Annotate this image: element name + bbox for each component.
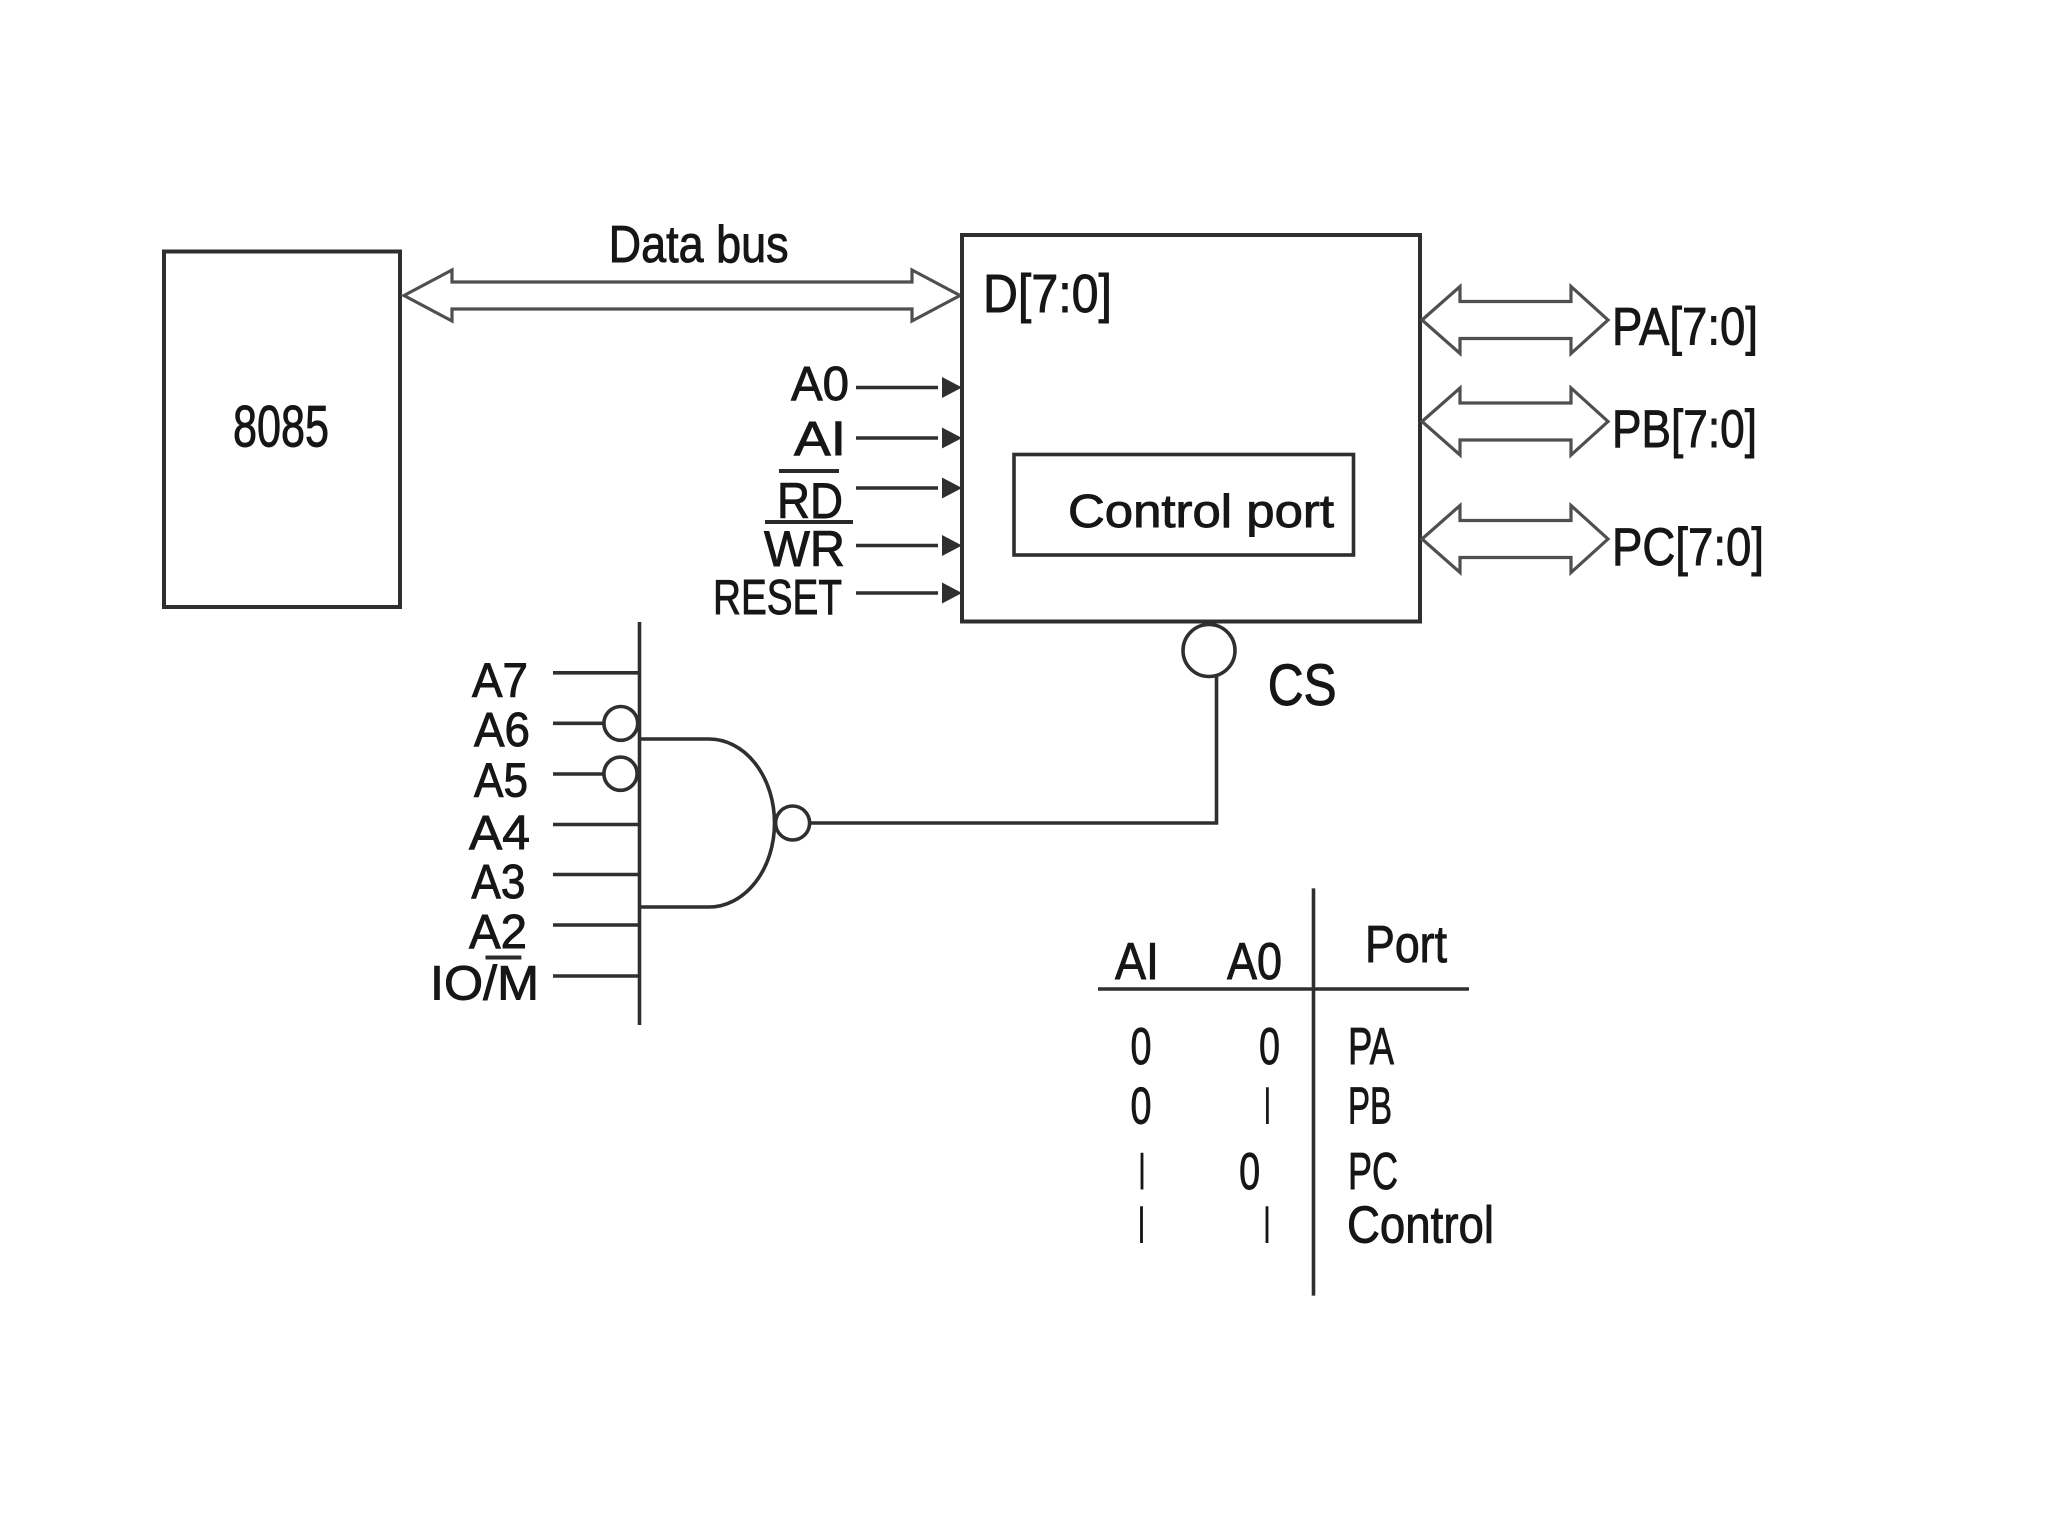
label CS <box>1268 653 1337 718</box>
label A3 <box>471 856 525 909</box>
label A2 <box>469 906 527 959</box>
svg-text:0: 0 <box>1131 1077 1152 1135</box>
port bus arrow PB <box>1422 388 1608 455</box>
svg-text:0: 0 <box>1259 1018 1280 1076</box>
label PB[7:0] <box>1612 400 1757 459</box>
svg-text:0: 0 <box>1239 1143 1260 1201</box>
svg-text:PC[7:0]: PC[7:0] <box>1612 518 1764 577</box>
svg-text:I: I <box>1264 1077 1271 1135</box>
label A0 <box>791 358 849 411</box>
label A7 <box>472 655 528 708</box>
svg-text:I: I <box>1138 1197 1145 1255</box>
label A1 <box>794 413 846 466</box>
svg-text:A6: A6 <box>474 704 530 757</box>
svg-text:Data bus: Data bus <box>609 216 789 274</box>
svg-text:IO/M: IO/M <box>430 958 539 1011</box>
svg-text:PA[7:0]: PA[7:0] <box>1612 298 1758 357</box>
truth table row PB <box>1131 1077 1393 1135</box>
svg-text:A0: A0 <box>1227 933 1282 991</box>
svg-text:RESET: RESET <box>713 571 842 625</box>
label RESET <box>713 571 842 625</box>
label PA[7:0] <box>1612 298 1758 357</box>
label Control port <box>1068 485 1334 537</box>
chip-select bubble on PPI <box>1183 625 1235 677</box>
wire arrow RD into PPI <box>856 478 962 499</box>
control port box <box>1014 455 1354 556</box>
wire A3 input <box>553 873 640 877</box>
inversion bubble A6 <box>604 707 638 741</box>
wire A4 input <box>553 823 640 827</box>
inversion bubble A5 <box>604 757 637 790</box>
svg-text:A4: A4 <box>469 807 530 860</box>
label IO/M with overline on M <box>430 958 539 1011</box>
wire arrow A0 into PPI <box>856 377 962 398</box>
label Data bus <box>609 216 789 274</box>
truth table vertical rule <box>1312 888 1316 1295</box>
svg-text:Port: Port <box>1365 916 1447 974</box>
data bus double arrow wire D[7:0] <box>404 270 960 321</box>
svg-text:PA: PA <box>1348 1018 1394 1076</box>
truth table header A0 <box>1227 933 1282 991</box>
truth table row PC <box>1139 1143 1399 1201</box>
svg-text:Control: Control <box>1347 1197 1494 1255</box>
NAND gate U3 body <box>640 739 775 907</box>
svg-text:A5: A5 <box>474 754 528 807</box>
svg-text:PB[7:0]: PB[7:0] <box>1612 400 1757 459</box>
svg-text:CS: CS <box>1268 653 1337 718</box>
svg-text:A7: A7 <box>472 655 528 708</box>
wire arrow WR into PPI <box>856 535 962 556</box>
label A4 <box>469 807 530 860</box>
port bus arrow PA <box>1422 287 1608 354</box>
svg-text:AI: AI <box>1115 933 1159 991</box>
wire IO/M input <box>553 974 640 978</box>
wire A6 input <box>553 721 604 725</box>
CPU block 8085 U1 <box>164 252 400 608</box>
label A5 <box>474 754 528 807</box>
NAND gate U3 input bus bar <box>638 622 642 1025</box>
port bus arrow PC <box>1422 506 1608 573</box>
label 8085 <box>233 395 329 460</box>
svg-text:A0: A0 <box>791 358 849 411</box>
truth table row PA <box>1131 1018 1395 1076</box>
pin label D[7:0] <box>983 264 1112 324</box>
wire arrow RESET into PPI <box>856 583 962 604</box>
truth table row Control <box>1138 1197 1494 1255</box>
truth table header A1 <box>1115 933 1159 991</box>
PPI block U2 (8255) <box>962 235 1420 622</box>
svg-text:WR: WR <box>764 521 845 577</box>
svg-text:PB: PB <box>1348 1077 1392 1135</box>
wire A2 input <box>553 923 640 927</box>
svg-text:0: 0 <box>1131 1018 1152 1076</box>
svg-text:A3: A3 <box>471 856 525 909</box>
svg-text:A2: A2 <box>469 906 527 959</box>
NAND output inversion bubble <box>776 806 810 840</box>
truth table horizontal rule <box>1098 987 1469 991</box>
svg-text:AI: AI <box>794 413 846 466</box>
svg-text:I: I <box>1139 1143 1146 1201</box>
label PC[7:0] <box>1612 518 1764 577</box>
truth table header Port <box>1365 916 1447 974</box>
svg-text:8085: 8085 <box>233 395 329 460</box>
svg-text:D[7:0]: D[7:0] <box>983 264 1112 324</box>
svg-text:PC: PC <box>1348 1143 1398 1201</box>
svg-text:Control port: Control port <box>1068 485 1334 537</box>
wire arrow A1 into PPI <box>856 428 962 449</box>
label A6 <box>474 704 530 757</box>
wire A7 input <box>553 671 640 675</box>
label WR with overline <box>764 521 853 577</box>
label RD with overline <box>777 471 843 529</box>
svg-text:I: I <box>1264 1197 1271 1255</box>
wire NAND output to CS <box>810 674 1217 823</box>
wire A5 input <box>553 772 604 776</box>
